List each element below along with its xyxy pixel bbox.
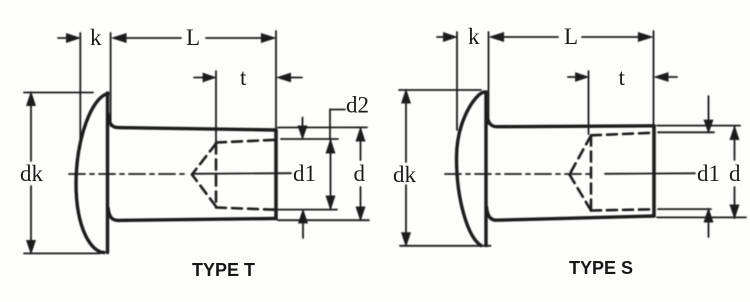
svg-text:d1: d1 [697, 161, 720, 186]
svg-text:L: L [564, 24, 578, 49]
svg-text:k: k [90, 25, 102, 50]
svg-text:dk: dk [393, 162, 417, 187]
svg-text:L: L [186, 25, 200, 50]
svg-text:t: t [619, 65, 626, 90]
svg-text:k: k [468, 24, 480, 49]
svg-text:TYPE T: TYPE T [192, 260, 255, 280]
svg-text:d2: d2 [346, 93, 369, 118]
svg-text:d1: d1 [293, 161, 316, 186]
svg-text:d: d [729, 161, 741, 186]
svg-text:TYPE S: TYPE S [569, 258, 633, 278]
svg-text:d: d [354, 161, 366, 186]
svg-text:t: t [240, 65, 247, 90]
svg-text:dk: dk [20, 161, 44, 186]
